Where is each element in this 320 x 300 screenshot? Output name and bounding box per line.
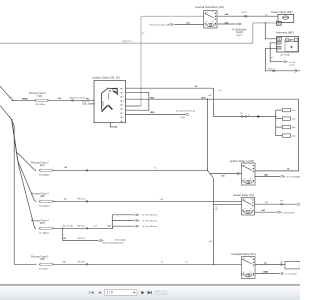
svg-text:30: 30 <box>244 258 246 260</box>
svg-text:30: 30 <box>244 164 246 166</box>
svg-text:Lamp: Lamp <box>289 64 295 66</box>
svg-text:n4: n4 <box>185 262 187 264</box>
wire ignition pin loop (pin2 to pin7) <box>126 92 149 110</box>
svg-text:D 4: D 4 <box>240 113 243 115</box>
wire V1 ignition feed down to relays <box>207 99 208 171</box>
svg-text:86: 86 <box>244 179 246 181</box>
ignition switch SW1 (key switch) <box>94 81 126 123</box>
wire alternator B+ feed <box>265 22 277 39</box>
starter motor M label <box>271 10 293 14</box>
svg-text:Neutral Start Relay (CF): Neutral Start Relay (CF) <box>195 5 224 9</box>
svg-text:Batt Pos.: Batt Pos. <box>123 40 133 43</box>
starter motor M1 <box>278 14 294 22</box>
svg-text:86: 86 <box>244 209 246 211</box>
wire neutral-start-relay feed from x141 <box>141 15 204 17</box>
svg-text:To ILLUM SW: To ILLUM SW <box>282 212 294 214</box>
alternator MF <box>277 37 299 53</box>
fuse F3 (primary fuse 3) <box>31 191 54 207</box>
svg-text:Alternator (MF): Alternator (MF) <box>276 31 294 35</box>
svg-text:n4B: n4B <box>264 173 268 176</box>
label fuse F127 40A <box>281 54 290 57</box>
ignition switch SW1 label <box>93 75 120 79</box>
wire V2 down to headlight feed <box>209 178 218 264</box>
svg-text:n4: n4 <box>161 261 163 263</box>
wire vertical drop x141 to ignition switch <box>140 16 142 106</box>
fuse F5 label <box>29 92 47 98</box>
label m1 <box>265 14 269 16</box>
svg-text:Heater Relay (CL): Heater Relay (CL) <box>233 193 254 197</box>
svg-text:n2: n2 <box>215 207 217 209</box>
svg-text:A'27 40A: A'27 40A <box>281 54 290 57</box>
svg-text:85: 85 <box>212 22 214 24</box>
alternator MF label <box>276 31 294 35</box>
toolbar disabled rotate buttons <box>154 291 167 295</box>
headlight unit load box <box>285 261 300 269</box>
wire CF output n41 to starter motor <box>217 12 278 17</box>
svg-text:Primary Fuse 1: Primary Fuse 1 <box>31 254 49 258</box>
svg-text:Primary Fuse 4: Primary Fuse 4 <box>31 218 49 222</box>
svg-text:02w.: 02w. <box>292 119 297 121</box>
svg-text:R12 4Amps: R12 4Amps <box>39 204 50 207</box>
svg-text:R13 4Amps: R13 4Amps <box>39 173 50 176</box>
wire n6 (ignition ACC) to right fan <box>126 86 276 116</box>
svg-text:S10: S10 <box>83 103 86 105</box>
svg-text:87: 87 <box>250 258 252 260</box>
svg-text:A 1: A 1 <box>10 96 13 99</box>
wire battery positive bus (Batt Pos.) <box>0 23 277 43</box>
svg-text:86: 86 <box>244 272 246 274</box>
svg-text:Primary Fuse 5: Primary Fuse 5 <box>29 92 47 95</box>
svg-text:03w.: 03w. <box>292 127 297 129</box>
svg-text:3: 3 <box>123 97 124 99</box>
relay DA label <box>232 252 256 256</box>
fuse F4 (primary fuse 4) <box>31 218 54 234</box>
wire fuse4 branch to backlight switch <box>62 228 126 245</box>
wire fuse2 to ignition relay <box>54 167 208 171</box>
svg-text:n5: n5 <box>154 168 156 170</box>
svg-text:1: 1 <box>123 89 124 91</box>
svg-text:Ignition Switch [CE, JE]: Ignition Switch [CE, JE] <box>93 75 120 79</box>
svg-text:R11 5Axx: R11 5Axx <box>39 267 49 270</box>
svg-text:7: 7 <box>123 113 124 115</box>
wire headlight relay coil output to lamp signal <box>255 271 297 276</box>
fuse F5 (primary fuse 5) <box>34 99 48 106</box>
wire 0RN6 <box>13 98 36 100</box>
svg-text:To Turn SW wire: To Turn SW wire <box>142 225 158 228</box>
svg-text:M: M <box>278 24 280 26</box>
svg-text:WR Dk fuse IP rlw: WR Dk fuse IP rlw <box>70 97 86 100</box>
svg-text:WR CB 1: WR CB 1 <box>77 226 85 228</box>
wire heater relay output n7 <box>255 201 300 206</box>
svg-text:To Backlight: To Backlight <box>115 238 127 241</box>
wire fuse5 to ignition switch <box>49 97 95 102</box>
connector D4 on accessory feed wire <box>240 113 260 118</box>
wire fuse3 to heater relay <box>54 198 242 202</box>
svg-text:Headlight Relay (DA): Headlight Relay (DA) <box>232 252 256 256</box>
svg-text:87: 87 <box>250 164 252 166</box>
wire fan to fuse3 <box>12 120 35 201</box>
node S10 splice (dashed) <box>82 101 94 104</box>
svg-text:m1: m1 <box>219 90 222 92</box>
svg-text:[NC]: [NC] <box>38 96 43 98</box>
wire headlight relay output ma to headlight unit <box>255 262 285 267</box>
svg-text:A 1: A 1 <box>9 116 12 119</box>
svg-text:From Slow Chg. OA: From Slow Chg. OA <box>150 24 170 27</box>
toolbar button first page <box>89 291 93 294</box>
wire fan to fuse1 (vertical) <box>12 120 35 265</box>
svg-text:[NC]: [NC] <box>40 165 45 167</box>
wire W1k ignition BR to right edge <box>126 90 299 171</box>
svg-text:8: 8 <box>123 117 124 119</box>
svg-text:B-E: B-E <box>277 48 280 50</box>
toolbar background <box>0 284 300 300</box>
svg-text:To Lamp Sig: To Lamp Sig <box>285 274 296 276</box>
node A1 lower battery junction <box>0 106 13 121</box>
svg-text:85: 85 <box>250 272 252 274</box>
node fuse4 junction <box>107 224 113 229</box>
svg-text:01w.: 01w. <box>292 110 297 112</box>
svg-text:1x1 4Amps: 1x1 4Amps <box>39 231 49 234</box>
svg-text:9: 9 <box>123 121 124 123</box>
relay CR (ignition relay 1) <box>242 163 256 185</box>
svg-text:1 / 9: 1 / 9 <box>107 291 113 295</box>
connector boxes fan (4 loads) <box>275 108 296 137</box>
svg-text:To Turn SW wire: To Turn SW wire <box>142 214 158 217</box>
node battery wire label NE <box>142 33 145 35</box>
wire fan to fuse4 <box>12 120 35 228</box>
svg-text:2: 2 <box>123 93 124 95</box>
svg-text:Switch (Backlight) wire: Switch (Backlight) wire <box>103 241 125 244</box>
svg-text:30: 30 <box>244 198 246 200</box>
svg-text:n16: n16 <box>160 199 163 201</box>
svg-text:Starter Motor (MA): Starter Motor (MA) <box>271 10 293 14</box>
wire ignition relay 1 output n6 to right edge <box>255 168 299 171</box>
node A1 battery junction (fuse 5) <box>0 86 13 101</box>
wire heater relay coil output to illum switch <box>255 209 295 214</box>
wire alternator W to indicator lamp <box>270 43 296 67</box>
toolbar button previous page <box>98 291 101 294</box>
svg-text:n16: n16 <box>208 95 211 97</box>
relay CF (neutral start relay) <box>204 11 217 28</box>
wire ignition relay 1 coil output to illum switch <box>255 173 301 178</box>
wire into ignition relay 1 <box>210 172 241 177</box>
wire into heater relay <box>214 204 242 208</box>
svg-text:n44B: n44B <box>263 271 269 274</box>
svg-text:5: 5 <box>123 105 124 107</box>
svg-text:30: 30 <box>206 12 208 14</box>
svg-text:R14 6Mxx: R14 6Mxx <box>36 104 46 106</box>
svg-text:86: 86 <box>206 22 208 24</box>
svg-text:W/L: W/L <box>277 43 280 45</box>
wire alternator B- to engine ground bus <box>265 48 300 72</box>
svg-text:n30: n30 <box>209 241 212 243</box>
wire CF pin85 to parkbrake switch <box>217 21 247 36</box>
fuse F1 (primary fuse 1) <box>31 254 54 270</box>
svg-text:To ILLUM SW(B): To ILLUM SW(B) <box>286 177 300 179</box>
svg-text:To Turn SW wire: To Turn SW wire <box>142 219 158 222</box>
wire x141 to ignition pin6 <box>126 105 142 107</box>
toolbar button next page <box>141 291 144 294</box>
wire to instrument panel <box>126 110 196 120</box>
svg-text:Primary Fuse 3: Primary Fuse 3 <box>31 191 49 195</box>
svg-text:n14: n14 <box>94 226 97 228</box>
svg-text:0RN6: 0RN6 <box>22 98 28 100</box>
toolbar button last page <box>148 291 152 294</box>
svg-text:87: 87 <box>212 12 214 14</box>
svg-text:6: 6 <box>123 109 124 111</box>
svg-text:(net ?: (net ? <box>237 34 244 37</box>
wires to turn switch (3 stubs) <box>112 214 158 229</box>
svg-text:85: 85 <box>250 209 252 211</box>
relay CL label <box>233 193 254 197</box>
svg-text:[NC]: [NC] <box>40 223 45 225</box>
relay CR label <box>230 159 254 163</box>
wire CF pin86 input (From Slow Chg.) <box>150 22 204 26</box>
starter pin box M <box>277 21 282 25</box>
svg-text:WR CB 2: WR CB 2 <box>77 199 85 201</box>
svg-text:n26: n26 <box>215 209 218 211</box>
svg-text:(NB): (NB) <box>40 196 45 198</box>
relay CL (heater relay) <box>242 197 255 215</box>
svg-text:4: 4 <box>123 101 124 103</box>
wire ignition switch ground stub <box>110 122 118 128</box>
svg-text:H M 1: H M 1 <box>242 12 248 14</box>
svg-text:(NB): (NB) <box>40 259 45 261</box>
wire fuse1 to headlight relay <box>54 261 242 265</box>
toolbar page number box <box>105 289 138 295</box>
svg-text:Primary Fuse 2: Primary Fuse 2 <box>31 160 49 164</box>
fuse F2 (primary fuse 2) <box>31 160 54 176</box>
svg-text:87: 87 <box>250 198 252 200</box>
wire fan to fuse2 <box>12 120 35 170</box>
svg-text:WR CB 4: WR CB 4 <box>77 262 85 264</box>
svg-text:To Instrument Panel: To Instrument Panel <box>176 110 196 113</box>
svg-text:TF 10A: TF 10A <box>66 225 73 228</box>
relay DA (headlight relay) <box>242 257 256 279</box>
relay CF label <box>195 5 224 9</box>
svg-text:04w.: 04w. <box>292 136 297 138</box>
svg-text:WR CB 5: WR CB 5 <box>77 238 85 240</box>
svg-text:01a: 01a <box>280 262 283 264</box>
wire V1-V2 transfer diagonal <box>208 170 214 178</box>
svg-text:85: 85 <box>250 179 252 181</box>
ignition switch left pins <box>86 98 95 104</box>
svg-text:Ignition Relay 1 [CR]: Ignition Relay 1 [CR] <box>230 159 254 163</box>
svg-text:n86 1: n86 1 <box>181 117 186 119</box>
wire fuse4 output <box>54 225 113 230</box>
svg-text:n36: n36 <box>63 238 66 240</box>
